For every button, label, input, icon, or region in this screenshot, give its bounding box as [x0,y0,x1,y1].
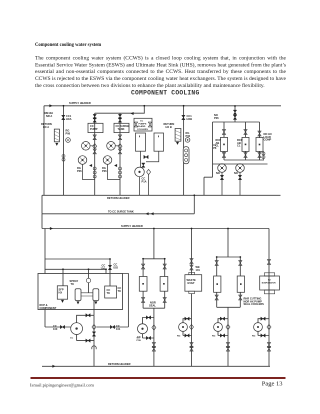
svg-text:HX: HX [59,290,63,294]
svg-text:P06: P06 [214,116,219,120]
svg-text:CC: CC [140,121,144,123]
svg-text:NO: NO [234,171,238,175]
svg-text:100: 100 [53,327,58,331]
svg-text:HX A: HX A [43,125,49,129]
svg-text:EVAP: EVAP [188,281,195,285]
svg-text:RETURN HEADER: RETURN HEADER [107,196,130,200]
svg-text:COMP: COMP [264,138,272,142]
svg-text:CL: CL [216,144,220,148]
svg-text:RETURN HEADER: RETURN HEADER [108,362,131,366]
svg-text:SEAL COOLERS: SEAL COOLERS [244,302,265,306]
svg-text:CC: CC [70,338,74,340]
svg-text:RG: RG [177,336,181,338]
svg-text:ISO: ISO [114,265,118,269]
svg-text:NO: NO [216,171,220,175]
svg-text:RG: RG [252,336,256,338]
svg-text:SUPPLY HEADER: SUPPLY HEADER [69,101,91,105]
svg-text:P06: P06 [66,131,71,135]
svg-text:HXB: HXB [187,117,193,121]
svg-text:P06: P06 [102,169,107,173]
svg-text:101: 101 [196,268,201,272]
svg-text:TANK: TANK [118,127,125,131]
svg-text:SUPPLY HEADER: SUPPLY HEADER [121,224,143,228]
svg-text:CL: CL [237,144,241,148]
svg-text:P06: P06 [186,134,191,138]
svg-text:PUMPS: PUMPS [139,123,147,125]
svg-text:COOLERS: COOLERS [137,129,148,131]
svg-text:P1A: P1A [142,179,147,183]
svg-text:SEAL: SEAL [149,303,156,307]
svg-text:TK: TK [107,291,111,295]
svg-text:P06: P06 [77,169,82,173]
svg-text:P1B: P1B [137,340,142,342]
svg-text:EVAPORATOR: EVAPORATOR [262,282,276,285]
svg-text:101: 101 [116,327,121,331]
svg-text:TK: TK [71,282,75,286]
svg-text:N2: N2 [268,280,271,282]
svg-text:PUMP: PUMP [90,127,98,131]
svg-text:RG: RG [212,336,216,338]
svg-text:HX B: HX B [166,125,172,129]
svg-text:GLAND: GLAND [138,125,146,128]
svg-text:104: 104 [101,266,106,270]
svg-text:TO CC SURGE TANK: TO CC SURGE TANK [108,209,134,213]
svg-text:TK: TK [118,289,122,293]
svg-text:COMPONENT: COMPONENT [40,306,57,310]
svg-text:NR A: NR A [46,114,52,118]
svg-text:HXA: HXA [66,117,72,121]
